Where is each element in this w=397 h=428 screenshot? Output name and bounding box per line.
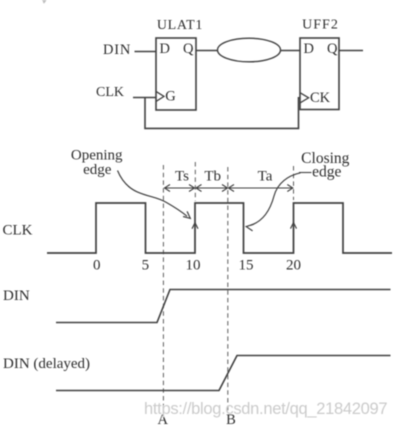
svg-text:Ts: Ts [175,169,189,185]
svg-text:UFF2: UFF2 [302,18,339,33]
svg-text:DIN: DIN [3,288,30,304]
svg-text:0: 0 [93,258,101,274]
svg-text:Q: Q [327,41,338,57]
svg-text:edge: edge [312,164,341,181]
svg-text:Q: Q [183,41,194,57]
svg-text:D: D [160,41,170,57]
svg-text:https://blog.csdn.net/qq_21842: https://blog.csdn.net/qq_21842097 [144,400,387,418]
svg-text:CLK: CLK [96,85,124,100]
svg-text:Opening: Opening [71,147,123,163]
svg-text:Tb: Tb [204,169,221,185]
svg-text:ULAT1: ULAT1 [157,18,203,33]
svg-text:15: 15 [239,258,254,274]
svg-text:5: 5 [142,258,150,274]
svg-text:DIN: DIN [103,42,131,58]
svg-text:edge: edge [83,162,112,178]
svg-text:Ta: Ta [258,169,273,185]
svg-text:20: 20 [286,258,301,274]
svg-text:D: D [304,41,314,57]
svg-text:CLK: CLK [3,223,33,239]
svg-text:DIN (delayed): DIN (delayed) [3,356,90,372]
svg-text:G: G [165,89,176,105]
svg-text:CK: CK [310,90,331,106]
svg-text:10: 10 [186,258,201,274]
